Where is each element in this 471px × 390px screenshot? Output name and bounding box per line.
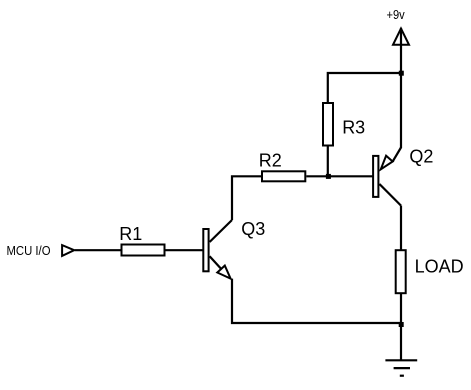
wire R2 to Q2 base	[306, 175, 372, 177]
wire R1 to Q3 base	[166, 249, 204, 251]
svg-text:R1: R1	[119, 224, 142, 244]
svg-text:MCU I/O: MCU I/O	[7, 243, 51, 258]
wire Q2 collector to LOAD	[400, 206, 402, 250]
svg-text:+9v: +9v	[387, 8, 406, 22]
wire input to R1	[75, 249, 121, 251]
wire Q3 emitter down and along bottom	[232, 279, 401, 323]
svg-text:R2: R2	[259, 150, 282, 170]
node MCU I/O input port triangle	[62, 245, 74, 256]
transistor Q3	[203, 219, 265, 278]
resistor R1	[119, 224, 164, 256]
svg-text:LOAD: LOAD	[415, 257, 464, 277]
svg-text:Q2: Q2	[409, 146, 433, 166]
svg-text:Q3: Q3	[241, 219, 265, 239]
node junction ground rail	[399, 322, 404, 327]
resistor R2	[259, 150, 306, 181]
ground	[385, 323, 417, 376]
wire Q3 collector up to R2	[232, 176, 261, 220]
wire R3 top to +9v rail	[328, 73, 402, 103]
node junction R2/R3/Q2-base	[326, 174, 331, 179]
wire LOAD bottom to ground rail	[400, 293, 402, 323]
resistor R3	[323, 103, 365, 146]
transistor Q2	[373, 146, 433, 205]
svg-text:R3: R3	[342, 118, 365, 138]
resistor LOAD	[396, 250, 464, 293]
node junction +9v rail	[399, 71, 404, 76]
wire R3 bottom to junction	[327, 147, 329, 177]
power +9v symbol	[387, 8, 410, 148]
